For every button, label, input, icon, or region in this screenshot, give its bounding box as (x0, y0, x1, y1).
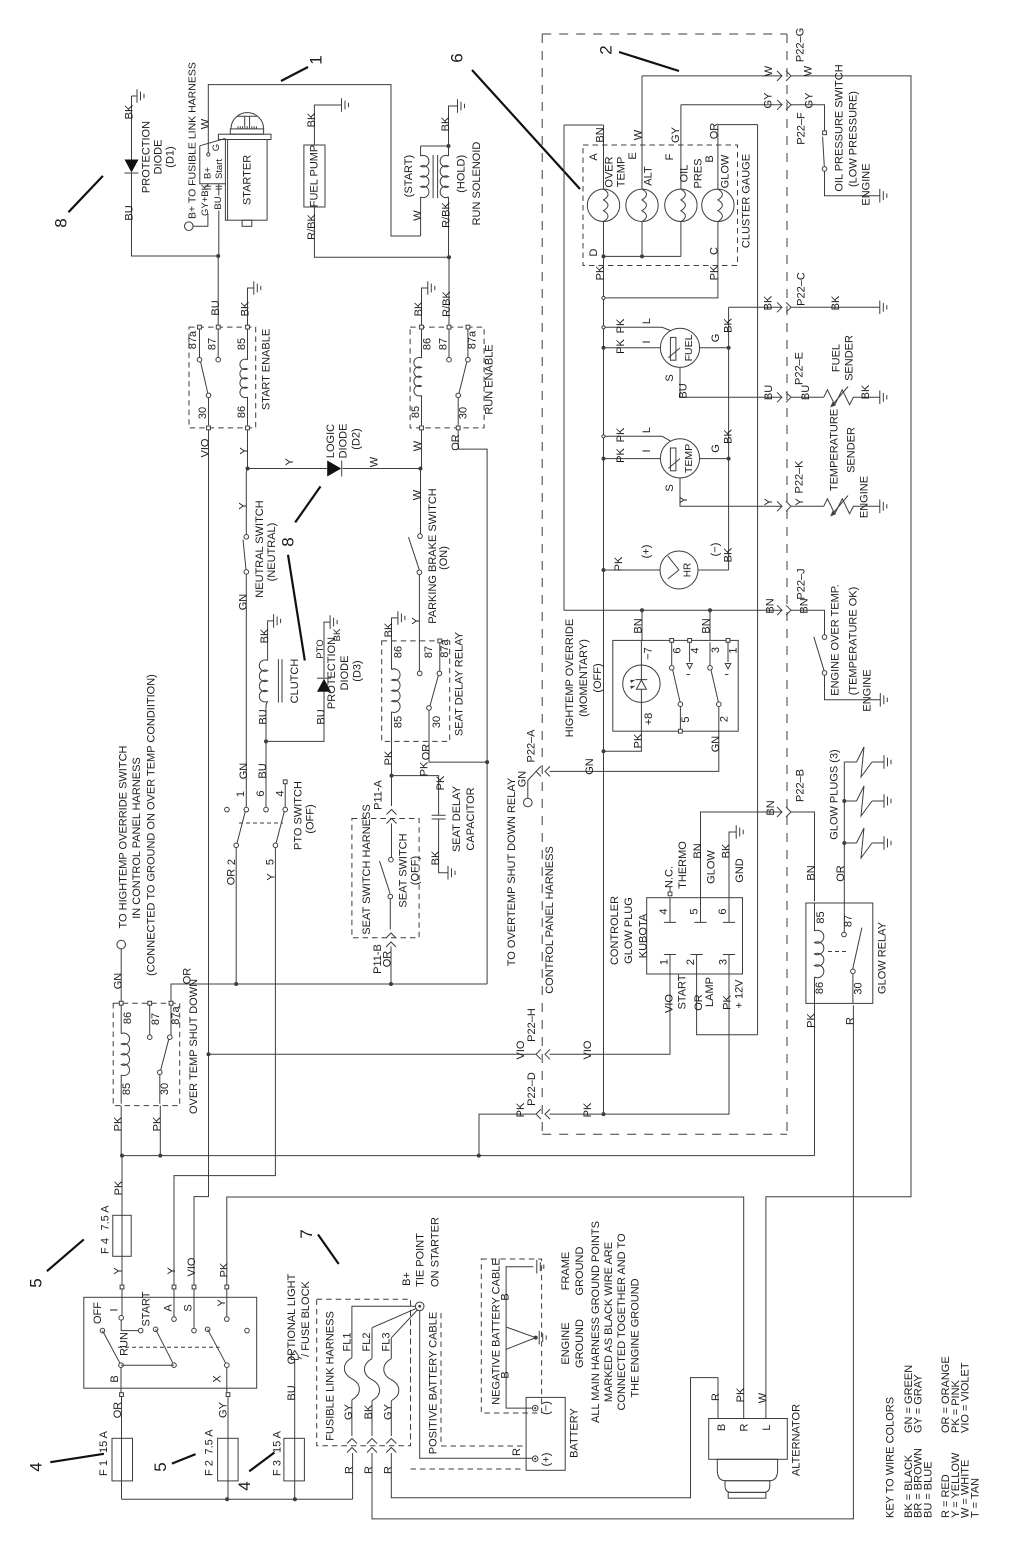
glow relay coupling dashes (828, 951, 849, 953)
svg-text:85: 85 (410, 406, 422, 418)
svg-text:4: 4 (689, 647, 701, 653)
svg-text:(OFF): (OFF) (592, 663, 604, 692)
key switch I-START link (121, 1320, 138, 1331)
svg-text:OIL PRESSURE SWITCH: OIL PRESSURE SWITCH (834, 64, 846, 191)
wire: R/BK fuel pump down to R/BK bus (314, 207, 449, 257)
svg-text:B: B (499, 1293, 511, 1300)
fuse F4 7.5A (113, 1215, 131, 1256)
svg-text:W: W (412, 489, 424, 500)
svg-text:R: R (344, 1466, 356, 1474)
wire: run solenoid top tie (421, 145, 449, 147)
svg-text:GLOW PLUG: GLOW PLUG (623, 897, 635, 964)
fusible link FL2 (372, 1308, 416, 1327)
svg-text:W: W (199, 118, 211, 129)
wire: GY key X to fuse F2 (226, 1393, 230, 1397)
svg-text:Y: Y (678, 496, 690, 504)
wire: G temp gauge to BK rail (700, 458, 729, 460)
glow plug 2 (844, 800, 856, 802)
PTO blade 1-2 (237, 812, 245, 844)
wire: Y from node down to neutral switch (246, 469, 247, 535)
svg-text:BU: BU (124, 205, 136, 220)
svg-text:87a: 87a (439, 638, 451, 657)
wire: OR from run enable 30 down right side (458, 430, 487, 984)
seat delay relay coil 86-85 (391, 641, 393, 670)
hightemp pin 5 contact (678, 702, 683, 707)
ground (glow plug 2) (884, 794, 891, 808)
contact blade 87a-30 (run enable) (459, 362, 467, 394)
key switch Y terminal (225, 1285, 229, 1289)
svg-text:Y: Y (166, 1267, 178, 1275)
wire: BK clutch coil to ground (268, 621, 274, 661)
callout 4 (to F3) (249, 1453, 274, 1472)
glow relay 87 contact (842, 932, 847, 937)
wire: PK glow relay 86 to PK bus (814, 1003, 816, 1155)
svg-text:PTO: PTO (315, 639, 326, 658)
svg-text:2: 2 (685, 959, 697, 965)
wire: PK overtemp 85 to PK bus (120, 1106, 122, 1156)
wire: Y temp gauge S to P22-K (680, 478, 824, 506)
svg-text:4: 4 (274, 790, 286, 796)
glow plug 3 (844, 842, 856, 844)
svg-text:GND: GND (734, 858, 746, 883)
ground (D1 BK) (137, 89, 144, 103)
plug tick marks on solenoid pins (205, 186, 222, 189)
svg-text:BU: BU (286, 1385, 298, 1400)
svg-text:KUBOTA: KUBOTA (638, 913, 650, 958)
PTO switch pin 6 contact (264, 807, 269, 812)
wire: GN to circle terminal (528, 771, 536, 798)
svg-text:TO OVERTEMP SHUT DOWN RELAY: TO OVERTEMP SHUT DOWN RELAY (506, 777, 518, 966)
svg-text:R: R (363, 1466, 375, 1474)
wire: W START coil bottom (420, 197, 422, 236)
svg-text:CONTROLER: CONTROLER (609, 896, 621, 965)
svg-text:(NEUTRAL): (NEUTRAL) (266, 523, 278, 582)
svg-text:1: 1 (307, 55, 326, 64)
wire: VIO from start enable 30 down to key switch S (194, 430, 209, 1285)
svg-text:PK: PK (633, 733, 645, 748)
connector FL1 (347, 1439, 357, 1453)
svg-text:Y: Y (411, 617, 423, 625)
svg-text:5: 5 (265, 859, 277, 865)
hightemp override lamp (623, 665, 660, 702)
svg-text:R: R (382, 1466, 394, 1474)
svg-text:B: B (704, 155, 716, 162)
wire: GN to overtemp relay 86 (120, 949, 122, 1001)
ground (D3) (330, 615, 337, 629)
svg-text:STARTER: STARTER (242, 155, 254, 205)
svg-text:BU: BU (213, 196, 224, 209)
svg-text:FL1: FL1 (342, 1333, 354, 1352)
svg-text:BK: BK (723, 547, 735, 562)
wire: PK to fuel gauge L (604, 327, 671, 330)
callout 1 (to W wire) (281, 67, 308, 81)
callout 4 (to F1) (50, 1454, 104, 1462)
fuel sender resistor (824, 390, 880, 405)
clutch core (278, 659, 282, 702)
wire: R FL3 to alternator B (391, 1378, 718, 1498)
ground (clutch BK) (274, 614, 281, 628)
svg-text:FUEL: FUEL (831, 344, 843, 372)
wire: BU from clutch to PTO pin 6 and D3 branch (266, 701, 268, 807)
wire: BU from D1 down and right to starter Start terminal net (132, 174, 219, 257)
svg-text:G: G (211, 144, 222, 151)
wire: Y from start enable 86 to logic diode node (247, 430, 249, 469)
connector FL3 (386, 1439, 396, 1453)
callout 6 (to cluster) (472, 70, 580, 189)
svg-text:3: 3 (718, 959, 730, 965)
controller box KUBOTA glow plug (647, 898, 743, 974)
wire: PK branch to seat delay capacitor (392, 776, 439, 816)
svg-text:BK: BK (124, 104, 136, 119)
svg-text:PK: PK (595, 265, 607, 280)
svg-text:PK: PK (806, 1013, 818, 1028)
svg-text:PK: PK (735, 1387, 747, 1402)
callout 7 (to fusible links) (318, 1235, 339, 1265)
svg-text:DIODE: DIODE (338, 424, 350, 459)
svg-text:W: W (368, 456, 380, 467)
svg-text:BN: BN (765, 800, 777, 815)
svg-text:+8: +8 (643, 713, 655, 726)
svg-text:5: 5 (151, 1462, 170, 1471)
ground (capacitor) (448, 866, 455, 880)
wire: BN from cluster to over temp lamp (564, 125, 604, 189)
hightemp pin 4 terminal (688, 639, 692, 643)
svg-text:P22–D: P22–D (526, 1072, 538, 1106)
wire: OR bus to overtemp relay 87a (171, 984, 487, 1001)
ground (run solenoid) (458, 99, 465, 113)
svg-text:PK: PK (582, 1102, 594, 1117)
glow relay 30 contact (851, 969, 856, 974)
svg-text:MARKED AS BLACK WIRE ARE: MARKED AS BLACK WIRE ARE (603, 1242, 615, 1402)
key switch box (84, 1297, 257, 1388)
fuel gauge (660, 328, 699, 367)
svg-text:OIL: OIL (679, 165, 691, 183)
controller N.C. thermo pin (668, 892, 672, 896)
ground (glow plug 3) (884, 836, 891, 850)
svg-text:BK: BK (763, 295, 775, 310)
svg-text:PK: PK (613, 556, 625, 571)
svg-text:8: 8 (52, 218, 71, 227)
glow plugs (3) (843, 762, 845, 932)
svg-text:R: R (710, 1393, 722, 1401)
svg-text:FUEL PUMP: FUEL PUMP (309, 145, 321, 208)
svg-text:15 A: 15 A (98, 1430, 110, 1453)
svg-text:4: 4 (235, 1481, 254, 1490)
svg-text:7: 7 (297, 1229, 316, 1238)
svg-text:30: 30 (197, 407, 209, 419)
pin 87 of run enable relay (447, 325, 451, 329)
svg-text:4: 4 (27, 1462, 46, 1471)
svg-text:BK: BK (332, 628, 343, 641)
svg-text:GY: GY (218, 1401, 230, 1418)
callout 8 (to D2 and D3) (295, 486, 320, 522)
run solenoid core (433, 155, 438, 198)
svg-text:S: S (664, 484, 676, 491)
svg-text:X: X (211, 1375, 223, 1383)
wire: R/BK down to run enable relay 87 (448, 257, 450, 325)
svg-text:PK: PK (515, 1102, 527, 1117)
svg-text:POSITIVE BATTERY CABLE: POSITIVE BATTERY CABLE (427, 1312, 439, 1454)
positive battery cable dashed outline (411, 1301, 525, 1469)
svg-text:I: I (641, 449, 653, 452)
PTO switch pin 1 contact (244, 807, 249, 812)
svg-text:PK: PK (615, 318, 627, 333)
svg-text:PK: PK (615, 448, 627, 463)
svg-text:87: 87 (423, 646, 435, 658)
wire: BN to engine over temp switch (791, 610, 825, 635)
svg-text:OR: OR (226, 869, 238, 886)
svg-text:F 2: F 2 (204, 1460, 216, 1476)
svg-text:N.C.: N.C. (664, 866, 676, 888)
svg-text:BN: BN (701, 618, 713, 633)
overtemp relay blade 87a-30 (161, 1040, 169, 1071)
relay K5 GLOW RELAY box (806, 903, 873, 1003)
svg-text:PK: PK (615, 339, 627, 354)
svg-text:BK: BK (306, 112, 318, 127)
relay K2 RUN ENABLE (dashed box) (410, 327, 484, 428)
wire: BK capacitor to ground (439, 819, 448, 873)
svg-text:GY: GY (382, 1403, 394, 1420)
wire: W from node to parking brake switch (420, 469, 422, 534)
junction: seat OR to bus (389, 982, 393, 986)
glow relay coil 85-86 (814, 903, 816, 931)
svg-text:L: L (761, 1424, 773, 1430)
seat delay capacitor (432, 815, 446, 819)
svg-text:FUEL: FUEL (683, 334, 695, 361)
svg-text:6: 6 (255, 790, 267, 796)
wire: W from D2 to node (343, 468, 421, 470)
temperature sender resistor (824, 499, 880, 514)
starter motor (231, 113, 264, 129)
overtemp relay 87 pin (148, 1001, 152, 1005)
svg-text:W: W (412, 210, 424, 221)
wire: W to P22-G and right side down to alternator L (642, 76, 911, 1419)
wire: VIO P22-H to VIO rail (209, 1053, 537, 1055)
wire: Y to logic diode D2 (248, 468, 328, 470)
svg-text:Y: Y (794, 498, 806, 506)
seat delay blade 87a-30 (430, 676, 438, 706)
engine over temp switch (temperature ok) (822, 635, 827, 640)
junction: VIO to P22-H (207, 1052, 211, 1056)
wire: BK controller GND to ground (729, 832, 736, 898)
hightemp override switch box (613, 640, 738, 731)
svg-text:R/BK: R/BK (440, 202, 452, 228)
junction: W node (419, 467, 423, 471)
controller pin 3 +12V (723, 955, 735, 975)
svg-text:L: L (641, 318, 653, 324)
svg-text:/ FUSE BLOCK: / FUSE BLOCK (300, 1280, 312, 1356)
svg-text:OPTIONAL LIGHT: OPTIONAL LIGHT (286, 1273, 298, 1364)
seat switch (OFF) (391, 824, 393, 858)
svg-text:GY: GY (804, 92, 816, 109)
svg-text:LAMP: LAMP (704, 977, 716, 1007)
svg-text:I: I (109, 1308, 121, 1311)
svg-text:PK: PK (113, 1116, 125, 1131)
svg-text:Y: Y (266, 873, 278, 881)
wire: BK seat delay 86 to ground (392, 618, 398, 641)
key switch terminal I (120, 1285, 124, 1289)
svg-text:+ 12V: + 12V (734, 979, 746, 1009)
svg-text:1: 1 (659, 959, 671, 965)
svg-text:ENGINE: ENGINE (862, 669, 874, 711)
wire: BU branch to protection diode D3 (266, 692, 324, 742)
svg-text:IN CONTROL PANEL HARNESS: IN CONTROL PANEL HARNESS (131, 757, 143, 919)
connector P11-A (387, 810, 397, 824)
svg-text:OR: OR (835, 865, 847, 882)
oil pressure switch (low pressure) (823, 131, 827, 135)
ground (temperature sender) (880, 500, 887, 514)
svg-text:DIODE: DIODE (339, 656, 351, 691)
svg-text:DIODE: DIODE (153, 140, 165, 175)
wire: BK from HR minus up BK rail (698, 569, 729, 571)
svg-text:CAPACITOR: CAPACITOR (465, 787, 477, 850)
svg-text:ALT: ALT (643, 166, 655, 186)
connector P22-H (536, 1049, 550, 1059)
svg-text:PK: PK (113, 1180, 125, 1195)
svg-text:BK: BK (830, 295, 842, 310)
svg-text:PK: PK (151, 1116, 163, 1131)
svg-text:E: E (627, 152, 639, 159)
wire: GN from neutral switch to PTO pin 1 (245, 574, 247, 807)
junction: BU node (216, 254, 220, 258)
ground (controller GND) (736, 825, 743, 839)
svg-text:W: W (763, 65, 775, 76)
key switch far contact (245, 1328, 250, 1333)
ground (engine over temp) (880, 693, 887, 707)
svg-text:1: 1 (235, 791, 247, 797)
wire: PK overtemp 30 to PK bus (159, 1106, 161, 1156)
svg-text:P22–J: P22–J (796, 568, 808, 599)
svg-text:P22–F: P22–F (796, 112, 808, 145)
wire: BU optional light to fuse F3 (294, 1360, 296, 1500)
ground (oil pressure switch) (880, 189, 887, 203)
svg-text:Y: Y (763, 498, 775, 506)
wire: BU fuel gauge S to P22-E (680, 367, 824, 397)
svg-text:15 A: 15 A (272, 1430, 284, 1453)
callout 5 (to F4) (47, 1239, 84, 1271)
lamp bottom rail D (604, 222, 682, 257)
svg-text:BK: BK (860, 384, 872, 399)
svg-text:VIO: VIO (582, 1040, 594, 1059)
svg-text:W: W (412, 440, 424, 451)
wire: R/BK HOLD coil bottom to node (448, 197, 450, 257)
svg-text:5: 5 (689, 908, 701, 914)
svg-text:BK: BK (723, 429, 735, 444)
svg-text:TIE POINT: TIE POINT (415, 1233, 427, 1287)
svg-text:(HOLD): (HOLD) (455, 155, 467, 193)
PTO pin 5 contact and Y wire down to key A net (273, 843, 278, 848)
wire: W from starter G up and right to run solenoid START coil (208, 85, 420, 236)
ground (P22-C) (880, 301, 887, 315)
svg-text:D: D (588, 248, 600, 256)
svg-text:86: 86 (122, 1012, 134, 1024)
wire: PK controller +12V to P22-D (550, 974, 730, 1114)
svg-text:(D1): (D1) (164, 146, 176, 167)
svg-text:R/BK: R/BK (441, 291, 453, 317)
svg-text:30: 30 (853, 982, 865, 994)
wire: BK fuel pump to ground (314, 105, 341, 145)
svg-text:GN: GN (710, 736, 722, 753)
seat switch harness dashed box (352, 819, 419, 938)
svg-text:SEAT DELAY RELAY: SEAT DELAY RELAY (454, 631, 466, 736)
svg-text:86: 86 (236, 406, 248, 418)
svg-text:BK: BK (240, 301, 252, 316)
svg-text:(+): (+) (641, 545, 653, 559)
svg-text:8: 8 (279, 537, 298, 546)
svg-text:GY: GY (343, 1403, 355, 1420)
hightemp pin 2 contact (717, 702, 722, 707)
svg-text:R: R (511, 1448, 523, 1456)
lamp ALT and W wire (641, 76, 643, 257)
wire: R FL1 to fuse bus (352, 1453, 354, 1499)
svg-text:(TEMPERATURE OK): (TEMPERATURE OK) (848, 587, 860, 696)
svg-text:TEMP: TEMP (616, 157, 628, 188)
svg-text:VIO: VIO (515, 1040, 527, 1059)
svg-text:30: 30 (159, 1083, 171, 1095)
fuse F1 15A (112, 1438, 133, 1481)
hightemp pin 3 contact and blade (709, 642, 711, 665)
svg-text:(OFF): (OFF) (409, 856, 421, 885)
svg-text:P22–H: P22–H (526, 1008, 538, 1042)
svg-text:A: A (163, 1304, 175, 1312)
svg-text:BN: BN (806, 865, 818, 880)
svg-text:W: W (803, 65, 815, 76)
svg-text:87: 87 (150, 1013, 162, 1025)
wire: W from run enable 85 to logic diode output node (421, 430, 423, 469)
svg-text:87: 87 (843, 915, 855, 927)
svg-text:VIO: VIO (186, 1257, 198, 1276)
alternator box (709, 1419, 788, 1460)
svg-text:OVER: OVER (604, 156, 616, 187)
wire: BN rail to P22-J (564, 609, 782, 611)
svg-text:R: R (739, 1423, 751, 1431)
wire: OR glow lamp down to controller LAMP pin (604, 125, 758, 1035)
svg-text:CONNECTED TOGETHER AND TO: CONNECTED TOGETHER AND TO (616, 1233, 628, 1410)
svg-text:85: 85 (815, 911, 827, 923)
wire: BN rail down left side (563, 125, 565, 610)
run solenoid START coil (420, 146, 422, 156)
wire: R FL2 to glow relay 30 (372, 1005, 853, 1519)
svg-text:R/BK: R/BK (306, 214, 318, 240)
svg-text:−7: −7 (643, 647, 655, 660)
PTO coupling dashes (239, 822, 283, 824)
clutch coil (259, 660, 267, 702)
svg-text:PK: PK (435, 775, 447, 790)
overtemp relay 30 contact (158, 1070, 163, 1075)
wire: PK from hightemp +8 to PK rail (604, 702, 642, 751)
overtemp relay 87a pin (169, 1001, 173, 1005)
callout 5 (to F2) (172, 1454, 196, 1464)
svg-text:Y: Y (238, 502, 250, 510)
wire: BN drops to hightemp override (642, 610, 710, 640)
wire: fuse bus at bottom (122, 1498, 353, 1500)
svg-text:BK: BK (721, 843, 733, 858)
svg-text:PK: PK (219, 1262, 231, 1277)
key switch OFF contact (100, 1328, 105, 1333)
wire: D3 to ground via PTO/BK (324, 622, 330, 678)
svg-text:RUN SOLENOID: RUN SOLENOID (471, 142, 483, 226)
key switch S terminal (192, 1285, 196, 1289)
svg-text:SEAT DELAY: SEAT DELAY (451, 785, 463, 852)
svg-text:GN: GN (584, 758, 596, 775)
wire: PK to temp gauge L (604, 436, 671, 441)
svg-text:W: W (633, 129, 645, 140)
seat delay 87 contact (417, 671, 422, 676)
junction: R/BK node at run solenoid (447, 255, 451, 259)
protection diode D1 (125, 160, 139, 173)
wire: PK from seat delay 85 (391, 741, 393, 806)
svg-text:W: W (757, 1392, 769, 1403)
